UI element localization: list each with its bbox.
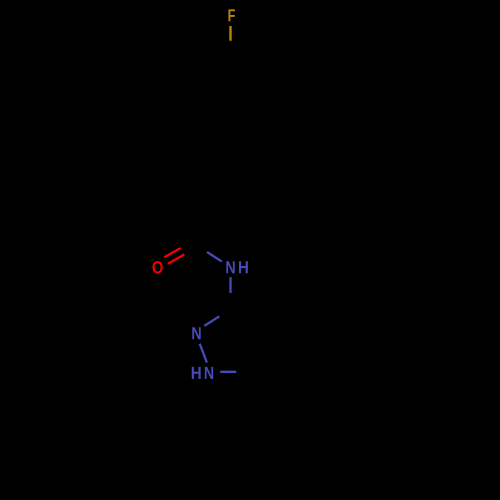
- bond N(amide)-C3 (nitrogen half, vertical): [229, 277, 231, 293]
- bond C=O lower line (oxygen half): [168, 254, 184, 263]
- atom label O (carbonyl oxygen): [152, 261, 162, 273]
- atom label HN - N glyph: [205, 367, 213, 379]
- bond C=O upper line (oxygen half): [164, 248, 180, 257]
- atom label HN - H glyph (pyrazole N1-H): [192, 367, 201, 379]
- atom label NH - N glyph (amide nitrogen): [226, 261, 234, 273]
- atom label F (fluorine): [228, 9, 234, 21]
- bond C(O)-N amide (nitrogen half): [207, 252, 222, 262]
- bond N1-C5 pyrazole (nitrogen half, horizontal): [220, 371, 236, 373]
- bond N2-N1 pyrazole (full blue): [200, 344, 207, 363]
- atom label N (pyrazole N2): [192, 327, 200, 339]
- atom label NH - H glyph: [239, 261, 248, 273]
- bond F-C1 (fluorine half, vertical): [229, 26, 231, 41]
- bond C3-N2 pyrazole (nitrogen half): [204, 316, 219, 326]
